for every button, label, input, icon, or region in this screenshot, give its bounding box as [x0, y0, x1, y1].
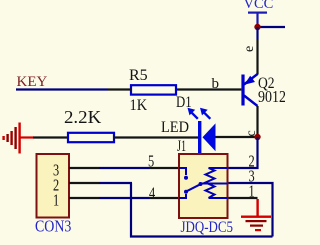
- svg-text:VCC: VCC: [244, 0, 274, 12]
- svg-text:1: 1: [249, 183, 255, 201]
- wire LED to collector node: [216, 136, 258, 138]
- relay contact pin5 stub: [179, 168, 186, 175]
- wire CON3 pin3 to relay pin5: [69, 167, 179, 169]
- relay coil top wire to pin 2: [209, 167, 228, 169]
- relay J1 box: [179, 154, 228, 218]
- wire CON3 pin2 to bottom loop: [69, 182, 132, 184]
- relay coil: [206, 168, 215, 198]
- svg-text:1: 1: [53, 192, 59, 210]
- wire collector node down to relay pin 2: [228, 137, 258, 168]
- wire bottom loop: [131, 183, 273, 237]
- svg-text:KEY: KEY: [17, 74, 48, 90]
- relay armature pivot dot: [199, 182, 203, 186]
- connector CON3: [37, 154, 70, 218]
- wire 2.2K to LED: [114, 136, 198, 138]
- transistor Q2: [241, 74, 257, 106]
- node VCC junction: [254, 24, 260, 30]
- resistor R5: [131, 85, 176, 94]
- svg-text:D1: D1: [176, 94, 192, 112]
- relay moving contact: [184, 190, 188, 194]
- pin collector Q2: [256, 106, 258, 137]
- ground left: [2, 123, 33, 154]
- resistor 2.2K: [68, 133, 114, 142]
- wire VCC junction down to emitter pin: [256, 27, 258, 40]
- svg-text:J1: J1: [177, 137, 186, 155]
- relay pole wire to pin 3: [201, 183, 228, 185]
- ground bottom right: [241, 199, 271, 231]
- diode D1 LED: [188, 108, 216, 153]
- node collector junction: [254, 134, 260, 140]
- svg-text:9012: 9012: [258, 88, 285, 106]
- pin 1 wire relay to ground: [228, 197, 258, 199]
- svg-text:e: e: [242, 46, 257, 52]
- relay fixed contact: [184, 176, 188, 180]
- svg-text:1K: 1K: [130, 96, 148, 114]
- wire KEY net: [16, 88, 108, 90]
- relay contact pin4 stub: [179, 194, 186, 198]
- wire VCC junction to right edge: [258, 26, 286, 28]
- svg-text:R5: R5: [129, 67, 148, 84]
- relay armature: [187, 184, 201, 191]
- wire CON3 pin1 to relay pin4: [69, 197, 179, 199]
- wire R5 to base: [177, 88, 241, 90]
- svg-text:2.2K: 2.2K: [64, 108, 101, 127]
- svg-text:CON3: CON3: [35, 217, 72, 236]
- pin 3 wire relay to riser: [228, 183, 273, 237]
- relay coil bottom wire to pin 1: [209, 197, 228, 199]
- pin emitter Q2: [256, 40, 258, 75]
- svg-text:LED: LED: [161, 118, 189, 136]
- wire ground to 2.2K: [33, 136, 68, 138]
- power VCC: [244, 0, 274, 27]
- pin R5 left: [108, 88, 131, 90]
- svg-text:4: 4: [149, 185, 156, 203]
- svg-text:JDQ-DC5: JDQ-DC5: [181, 219, 234, 237]
- svg-text:5: 5: [148, 153, 154, 171]
